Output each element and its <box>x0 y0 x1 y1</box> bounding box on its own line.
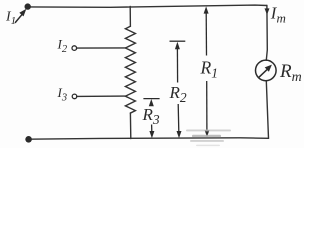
svg-text:R1: R1 <box>200 58 218 81</box>
terminal I2 (open circle) <box>72 46 77 51</box>
svg-text:Im: Im <box>270 4 286 26</box>
meter Rm: galvanometer circle <box>255 60 276 81</box>
dimension R2: lower line + down arrowhead <box>177 104 182 138</box>
svg-text:Rm: Rm <box>279 61 302 85</box>
wire right branch lower (meter to bottom corner) <box>266 81 268 139</box>
wire left branch top lead <box>129 6 131 26</box>
node top-left terminal dot <box>25 3 31 9</box>
node bottom-left terminal dot <box>25 136 32 143</box>
svg-text:R2: R2 <box>169 83 187 105</box>
svg-text:I1: I1 <box>5 10 16 28</box>
wire top horizontal <box>28 5 267 7</box>
watermark (faint scanner text) <box>186 130 231 147</box>
wire right branch upper (top corner to meter) <box>266 6 267 61</box>
dimension R3: up arrowhead <box>149 99 154 106</box>
wire I2 tap <box>77 47 126 49</box>
resistor chain (zigzag) <box>125 26 135 113</box>
arrow I1 current into node <box>15 9 26 23</box>
wire bottom horizontal <box>29 138 269 139</box>
svg-text:R3: R3 <box>142 105 160 127</box>
dimension R2: up arrowhead + upper line <box>175 42 180 83</box>
wire I3 tap <box>77 95 126 97</box>
meter Rm: needle arrow <box>259 65 272 78</box>
svg-text:I2: I2 <box>57 37 68 56</box>
arrow Im (down arrowhead on right wire) <box>265 8 270 14</box>
dimension R1: up arrowhead + upper line <box>204 6 209 55</box>
dimension R3: down arrow to bottom wire <box>149 125 154 139</box>
wire left branch bottom lead <box>129 113 131 139</box>
dimension R1: lower line + down arrowhead <box>205 81 210 137</box>
dimension R3: top reference bar <box>143 98 159 100</box>
svg-text:I3: I3 <box>57 85 68 104</box>
dimension R2: top reference bar <box>170 40 186 42</box>
terminal I3 (open circle) <box>72 94 77 99</box>
